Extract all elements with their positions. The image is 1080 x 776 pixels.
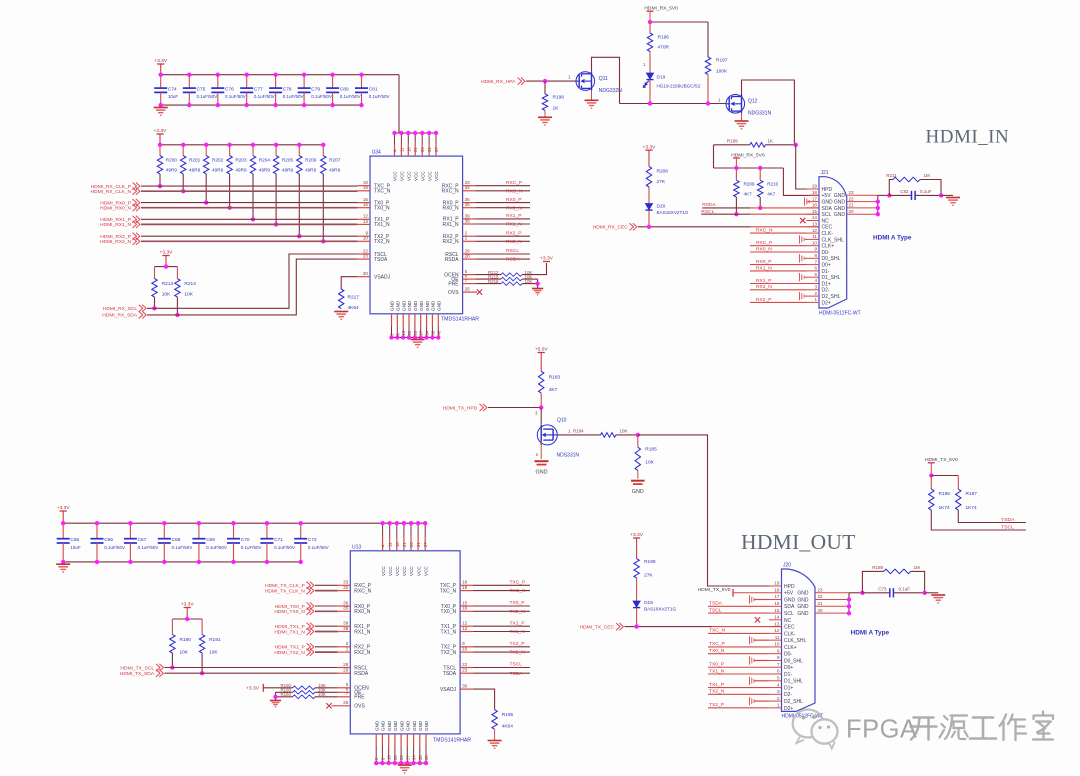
- svg-text:GND: GND: [797, 591, 809, 597]
- U34 GND pin 13: [401, 300, 406, 337]
- svg-text:TX0_N: TX0_N: [709, 648, 725, 654]
- svg-text:FPGA: FPGA: [846, 715, 917, 743]
- svg-text:BAS16XV2T1G: BAS16XV2T1G: [657, 210, 689, 215]
- svg-text:HDMI_RX_CLK_N: HDMI_RX_CLK_N: [91, 189, 132, 195]
- junction: [395, 521, 399, 525]
- junction: [405, 761, 409, 765]
- junction: [419, 335, 423, 339]
- wire: [522, 284, 538, 289]
- no-connect X (U34 OVS): [477, 289, 482, 294]
- U34 GND pin 40: [436, 300, 441, 337]
- wire: [750, 232, 807, 234]
- U34 pin 18 TXC_P: [357, 180, 390, 189]
- U13 pin 15 TX0_P: [441, 600, 473, 609]
- J20 pin 21 GND: [797, 601, 849, 610]
- svg-text:2: 2: [777, 696, 780, 701]
- U13 pin 16 TX0_N: [441, 606, 473, 615]
- svg-text:0.1uF: 0.1uF: [920, 189, 932, 194]
- svg-text:SCL: SCL: [822, 212, 832, 218]
- junction: [416, 521, 420, 525]
- U34 GND pin 38: [430, 300, 435, 337]
- shield marks (J20 pin 8): [749, 656, 751, 664]
- resistor R185: [635, 435, 657, 479]
- svg-text:J21: J21: [821, 170, 829, 176]
- U13 VCC pin 21: [402, 523, 407, 576]
- shield marks (J21 pin 2): [799, 292, 801, 300]
- U13 GND pin 20: [393, 720, 398, 763]
- J20 pin 1 D2+: [769, 703, 793, 712]
- capacitor C77: [240, 75, 274, 105]
- svg-text:16: 16: [363, 202, 369, 207]
- svg-text:0.1uF/50V: 0.1uF/50V: [254, 94, 275, 99]
- resistor R214: [175, 267, 196, 298]
- resistor R195: [492, 710, 514, 730]
- svg-text:6: 6: [814, 266, 817, 271]
- svg-text:26: 26: [409, 542, 414, 547]
- svg-text:C66: C66: [104, 537, 113, 543]
- wire: [315, 631, 338, 633]
- wire: [275, 174, 277, 225]
- svg-text:GND: GND: [374, 720, 379, 731]
- wire: [708, 666, 769, 668]
- junction: [411, 761, 415, 765]
- svg-text:RSDA: RSDA: [506, 257, 520, 263]
- svg-text:12: 12: [812, 228, 818, 233]
- junction: [706, 101, 710, 105]
- shield marks (J21 pin 5): [799, 273, 801, 281]
- svg-text:RXC_P: RXC_P: [506, 180, 522, 186]
- junction: [636, 433, 640, 437]
- svg-text:0.1uF/50V: 0.1uF/50V: [311, 94, 332, 99]
- svg-text:C80: C80: [340, 86, 349, 92]
- svg-text:NDG332N: NDG332N: [599, 88, 622, 94]
- junction: [273, 695, 277, 699]
- capacitor C65: [57, 523, 81, 562]
- wire: [141, 223, 357, 225]
- svg-text:RX2_N: RX2_N: [506, 239, 522, 245]
- junction: [164, 264, 168, 268]
- U34 VCC pin 26: [420, 133, 425, 181]
- svg-text:C71: C71: [274, 537, 283, 543]
- wire: [592, 57, 620, 103]
- svg-text:R204: R204: [259, 158, 271, 163]
- svg-text:R187: R187: [966, 491, 978, 497]
- svg-text:TX2_N: TX2_N: [510, 650, 526, 656]
- transistor Q12 NDG331N: [726, 95, 745, 114]
- svg-text:30: 30: [363, 271, 369, 276]
- wire: [750, 270, 807, 272]
- resistor R217: [339, 289, 360, 311]
- wire: [708, 632, 769, 634]
- wire: [473, 689, 495, 710]
- svg-text:SDA: SDA: [822, 206, 833, 212]
- U13 pin 19 TXC_N: [440, 585, 473, 594]
- U34 pin 10 TX2_N: [357, 236, 390, 245]
- junction: [424, 335, 428, 339]
- svg-text:13: 13: [401, 330, 406, 335]
- svg-text:7: 7: [346, 691, 349, 696]
- capacitor C67: [124, 523, 158, 562]
- shield marks (J20 pin 11): [749, 636, 751, 644]
- junction: [406, 131, 410, 135]
- svg-text:GND: GND: [412, 720, 417, 731]
- connector J21 body: [819, 170, 861, 316]
- J21 pin 22 GND: [834, 196, 878, 205]
- resistor R199: [714, 139, 796, 148]
- svg-text:HDMI_RX_CEC: HDMI_RX_CEC: [593, 225, 629, 231]
- J21 pin 3 D2-: [807, 285, 830, 294]
- junction: [543, 79, 547, 83]
- svg-text:HDMI_RX_CLK_P: HDMI_RX_CLK_P: [91, 184, 131, 190]
- svg-text:HDMI_TX_HPD: HDMI_TX_HPD: [443, 405, 478, 411]
- junction: [128, 521, 132, 525]
- wire: [522, 278, 538, 280]
- svg-text:D0+: D0+: [822, 263, 831, 269]
- junction: [648, 101, 652, 105]
- svg-text:GND: GND: [797, 604, 809, 610]
- junction: [392, 131, 396, 135]
- svg-text:25: 25: [413, 330, 418, 335]
- svg-text:GND: GND: [413, 300, 418, 311]
- junction: [929, 473, 933, 477]
- svg-text:18: 18: [462, 580, 468, 585]
- svg-text:3: 3: [777, 689, 780, 694]
- svg-text:GND: GND: [396, 300, 401, 311]
- resistor R207: [321, 145, 341, 174]
- svg-text:RX1_N: RX1_N: [354, 629, 371, 635]
- svg-text:35: 35: [343, 606, 349, 611]
- junction: [216, 73, 220, 77]
- wire: [708, 693, 769, 695]
- junction: [231, 521, 235, 525]
- svg-text:R186: R186: [939, 491, 951, 497]
- svg-text:+3.3V: +3.3V: [154, 128, 168, 134]
- svg-text:+5V: +5V: [784, 591, 794, 597]
- svg-text:21: 21: [402, 542, 407, 547]
- svg-text:49R9: 49R9: [259, 168, 271, 173]
- svg-text:R211: R211: [886, 173, 897, 178]
- J20 pin 18 +5V: [769, 587, 794, 596]
- svg-text:TMDS141RHAR: TMDS141RHAR: [441, 317, 479, 323]
- svg-text:19: 19: [774, 581, 780, 586]
- wire: [750, 301, 807, 303]
- wire: [182, 174, 184, 191]
- wire: [750, 245, 807, 247]
- J21 pin 17 GND: [807, 196, 834, 205]
- U34 pin 7 PRE: [448, 278, 475, 287]
- svg-text:14: 14: [774, 615, 780, 620]
- junction: [413, 131, 417, 135]
- svg-text:R203: R203: [235, 158, 247, 163]
- svg-text:Q12: Q12: [748, 99, 758, 105]
- svg-text:32: 32: [343, 585, 349, 590]
- junction: [265, 521, 269, 525]
- svg-text:22: 22: [462, 662, 468, 667]
- U34 VCC pin 31: [427, 133, 432, 181]
- svg-text:1: 1: [568, 428, 571, 433]
- capacitor C66: [91, 523, 125, 562]
- svg-text:HDMI_IN: HDMI_IN: [926, 127, 1010, 148]
- svg-text:0.1uF/50V: 0.1uF/50V: [104, 545, 125, 550]
- svg-text:7: 7: [814, 259, 817, 264]
- wire: [783, 168, 819, 195]
- svg-text:21: 21: [818, 601, 824, 606]
- wire: [750, 289, 807, 291]
- watermark glyph 作: [1000, 715, 1027, 741]
- svg-text:20: 20: [407, 330, 412, 335]
- svg-text:SCL: SCL: [784, 611, 794, 617]
- svg-text:TX2_N: TX2_N: [374, 239, 390, 245]
- svg-text:GND: GND: [797, 597, 809, 603]
- svg-text:HDMI_RX_HPA: HDMI_RX_HPA: [481, 79, 516, 85]
- wire: [315, 584, 338, 586]
- svg-text:20: 20: [849, 209, 855, 214]
- op-amp U13 TMDS141RHAR body: [350, 544, 471, 743]
- svg-text:RSDA: RSDA: [354, 671, 369, 677]
- junction: [273, 73, 277, 77]
- svg-text:R201: R201: [189, 158, 201, 163]
- svg-text:+3.3V: +3.3V: [643, 144, 657, 150]
- svg-text:RX0_N: RX0_N: [354, 609, 371, 615]
- svg-text:GND: GND: [419, 300, 424, 311]
- svg-text:J20: J20: [783, 563, 791, 569]
- svg-text:7: 7: [465, 278, 468, 283]
- svg-text:32: 32: [465, 185, 471, 190]
- capacitor C70: [227, 523, 261, 562]
- wire: [537, 279, 539, 284]
- wire: [229, 174, 231, 208]
- svg-text:D19: D19: [657, 75, 666, 81]
- svg-text:TSDA: TSDA: [510, 671, 524, 677]
- svg-text:R199: R199: [727, 139, 738, 144]
- J20 pin 9 D0-: [769, 648, 792, 657]
- J20 pin 5 D1_SHL: [769, 675, 803, 684]
- svg-text:CLK+: CLK+: [822, 244, 835, 250]
- wire net TX0_P: [473, 605, 530, 607]
- svg-text:TSDA: TSDA: [1001, 517, 1015, 523]
- svg-text:34: 34: [412, 755, 417, 760]
- junction: [876, 199, 880, 203]
- wire: [742, 80, 795, 145]
- wire: [376, 762, 426, 764]
- wire: [526, 80, 576, 82]
- junction: [321, 239, 325, 243]
- svg-text:10: 10: [462, 647, 468, 652]
- U13 pin 29 RSDA: [338, 668, 369, 677]
- svg-text:HDMI_TX2_N: HDMI_TX2_N: [274, 650, 305, 656]
- wire net TX1_P: [473, 625, 530, 627]
- svg-text:HDMI_TX1_N: HDMI_TX1_N: [274, 629, 305, 635]
- capacitor C68: [158, 523, 192, 562]
- wire net TX0_N: [473, 610, 530, 612]
- junction: [185, 617, 189, 621]
- wire: [315, 646, 338, 648]
- svg-text:TSCL: TSCL: [709, 607, 722, 613]
- svg-text:HDMI A Type: HDMI A Type: [873, 235, 912, 242]
- U13 VCC pin 31: [416, 523, 421, 576]
- J21 pin 18 +5V: [807, 190, 832, 199]
- junction: [389, 335, 393, 339]
- svg-text:GND: GND: [834, 193, 846, 199]
- junction: [402, 521, 406, 525]
- wire: [315, 610, 338, 612]
- svg-text:D1_SHL: D1_SHL: [784, 679, 803, 685]
- J20 pin 11 CLK_SHL: [769, 635, 806, 644]
- svg-text:1M: 1M: [924, 173, 931, 178]
- resistor R210: [758, 168, 779, 197]
- wire: [650, 21, 708, 23]
- svg-text:TXC_N: TXC_N: [374, 189, 391, 195]
- svg-text:C77: C77: [254, 86, 263, 92]
- U34 pin 9 TX2_P: [357, 231, 390, 240]
- wire: [620, 103, 726, 105]
- svg-text:RXC_N: RXC_N: [506, 188, 523, 194]
- svg-text:+3.3V: +3.3V: [630, 532, 644, 538]
- junction: [424, 761, 428, 765]
- svg-text:36: 36: [343, 600, 349, 605]
- ground (U34 OE/PRE): [532, 288, 543, 290]
- svg-text:1M: 1M: [914, 565, 921, 570]
- U34 GND pin 34: [425, 300, 430, 337]
- U34 pin 25 OVS: [448, 287, 477, 296]
- svg-text:2: 2: [814, 291, 817, 296]
- U34 GND pin 25: [413, 300, 418, 337]
- wire: [176, 297, 178, 315]
- svg-text:VCC: VCC: [402, 566, 407, 576]
- wire: [931, 475, 958, 477]
- resistor R209: [734, 168, 755, 197]
- U13 pin 12 TX1_P: [441, 621, 473, 630]
- wire: [263, 687, 292, 689]
- J20 pin 16 SDA: [769, 601, 795, 610]
- U13 pin 35 RX0_N: [338, 606, 371, 615]
- wire: [941, 194, 953, 196]
- J21 pin 13 CEC: [807, 222, 833, 231]
- svg-text:OVS: OVS: [354, 704, 365, 710]
- U13 GND pin 40: [424, 720, 429, 763]
- U13 pin 18 TXC_P: [440, 580, 473, 589]
- svg-text:18: 18: [812, 190, 818, 195]
- svg-text:10K: 10K: [180, 650, 189, 656]
- svg-text:CEC: CEC: [784, 625, 795, 631]
- junction: [330, 73, 334, 77]
- svg-text:GND: GND: [437, 300, 442, 311]
- ground (J20 shell): [931, 594, 945, 596]
- svg-text:HDMI_TX_CEC: HDMI_TX_CEC: [580, 624, 615, 630]
- svg-text:CLK+: CLK+: [784, 645, 797, 651]
- svg-text:TX1_N: TX1_N: [510, 629, 526, 635]
- svg-text:R208: R208: [657, 169, 669, 175]
- svg-text:11: 11: [399, 147, 404, 152]
- svg-text:17: 17: [812, 196, 818, 201]
- resistor R216: [475, 279, 532, 286]
- ground (Q11 source): [591, 90, 593, 100]
- junction: [302, 73, 306, 77]
- junction: [297, 143, 301, 147]
- svg-text:TSDA: TSDA: [709, 601, 723, 607]
- U34 pin 32 RXC_N: [442, 185, 476, 194]
- shield marks (J20 pin 5): [749, 677, 751, 685]
- ground (U13 OE/PRE): [270, 700, 281, 702]
- junction: [374, 761, 378, 765]
- svg-text:RX2_N: RX2_N: [354, 650, 371, 656]
- svg-text:GND: GND: [418, 720, 423, 731]
- resistor R215: [475, 274, 532, 281]
- wire: [398, 75, 400, 133]
- svg-text:23: 23: [363, 254, 369, 259]
- svg-text:PRE: PRE: [448, 281, 459, 287]
- svg-text:HDMI_RX2_P: HDMI_RX2_P: [100, 234, 131, 240]
- svg-text:C82: C82: [900, 189, 909, 194]
- U34 GND pin 20: [407, 300, 412, 337]
- wire: [849, 592, 862, 594]
- svg-text:D0-: D0-: [822, 250, 830, 256]
- capacitor C73: [862, 587, 924, 598]
- junction: [634, 624, 638, 628]
- U13 VCC pin 4: [381, 523, 386, 576]
- wire: [878, 194, 890, 196]
- svg-text:10uF: 10uF: [168, 94, 179, 99]
- svg-text:12: 12: [462, 621, 468, 626]
- junction: [794, 143, 798, 147]
- resistor R205: [273, 145, 293, 174]
- svg-text:GND: GND: [390, 300, 395, 311]
- svg-text:U34: U34: [372, 150, 381, 156]
- junction: [647, 225, 651, 229]
- svg-text:HPD: HPD: [822, 187, 833, 193]
- svg-text:0.1uF/50V: 0.1uF/50V: [225, 94, 246, 99]
- ground (R217): [334, 311, 348, 313]
- svg-text:6: 6: [777, 669, 780, 674]
- svg-text:27: 27: [419, 330, 424, 335]
- ground (Q12 source): [741, 113, 743, 121]
- U13 pin 2 RX2_P: [338, 641, 371, 650]
- svg-text:1K74: 1K74: [939, 505, 951, 511]
- ground (under C65): [56, 563, 70, 565]
- svg-text:R196: R196: [658, 35, 670, 41]
- svg-text:R216: R216: [488, 279, 499, 284]
- junction: [648, 20, 652, 24]
- watermark WeChat logo: [793, 710, 838, 749]
- svg-text:RX2_N: RX2_N: [442, 239, 459, 245]
- svg-text:D1+: D1+: [822, 281, 831, 287]
- svg-text:10: 10: [812, 240, 818, 245]
- svg-text:CLK-: CLK-: [784, 631, 796, 637]
- svg-text:+3.3V: +3.3V: [181, 602, 195, 608]
- ground (under C74): [154, 107, 168, 109]
- svg-text:13: 13: [812, 222, 818, 227]
- resistor R204: [250, 145, 270, 174]
- svg-text:TX2_N: TX2_N: [709, 689, 725, 695]
- svg-text:D18: D18: [644, 600, 653, 606]
- svg-text:TSCL: TSCL: [510, 662, 523, 668]
- junction: [939, 193, 943, 197]
- wire: [392, 337, 439, 339]
- resistor R202: [204, 145, 224, 174]
- svg-text:21: 21: [849, 203, 855, 208]
- svg-text:+3.3V: +3.3V: [540, 256, 554, 262]
- svg-text:D1-: D1-: [784, 672, 792, 678]
- svg-text:26: 26: [420, 147, 425, 152]
- resistor R190: [170, 619, 192, 656]
- svg-text:1K74: 1K74: [966, 505, 978, 511]
- svg-text:49R9: 49R9: [282, 168, 294, 173]
- J21 pin 19 HPD: [807, 184, 833, 193]
- wire: [877, 195, 879, 214]
- junction: [227, 143, 231, 147]
- junction: [409, 521, 413, 525]
- svg-text:NC: NC: [784, 618, 792, 624]
